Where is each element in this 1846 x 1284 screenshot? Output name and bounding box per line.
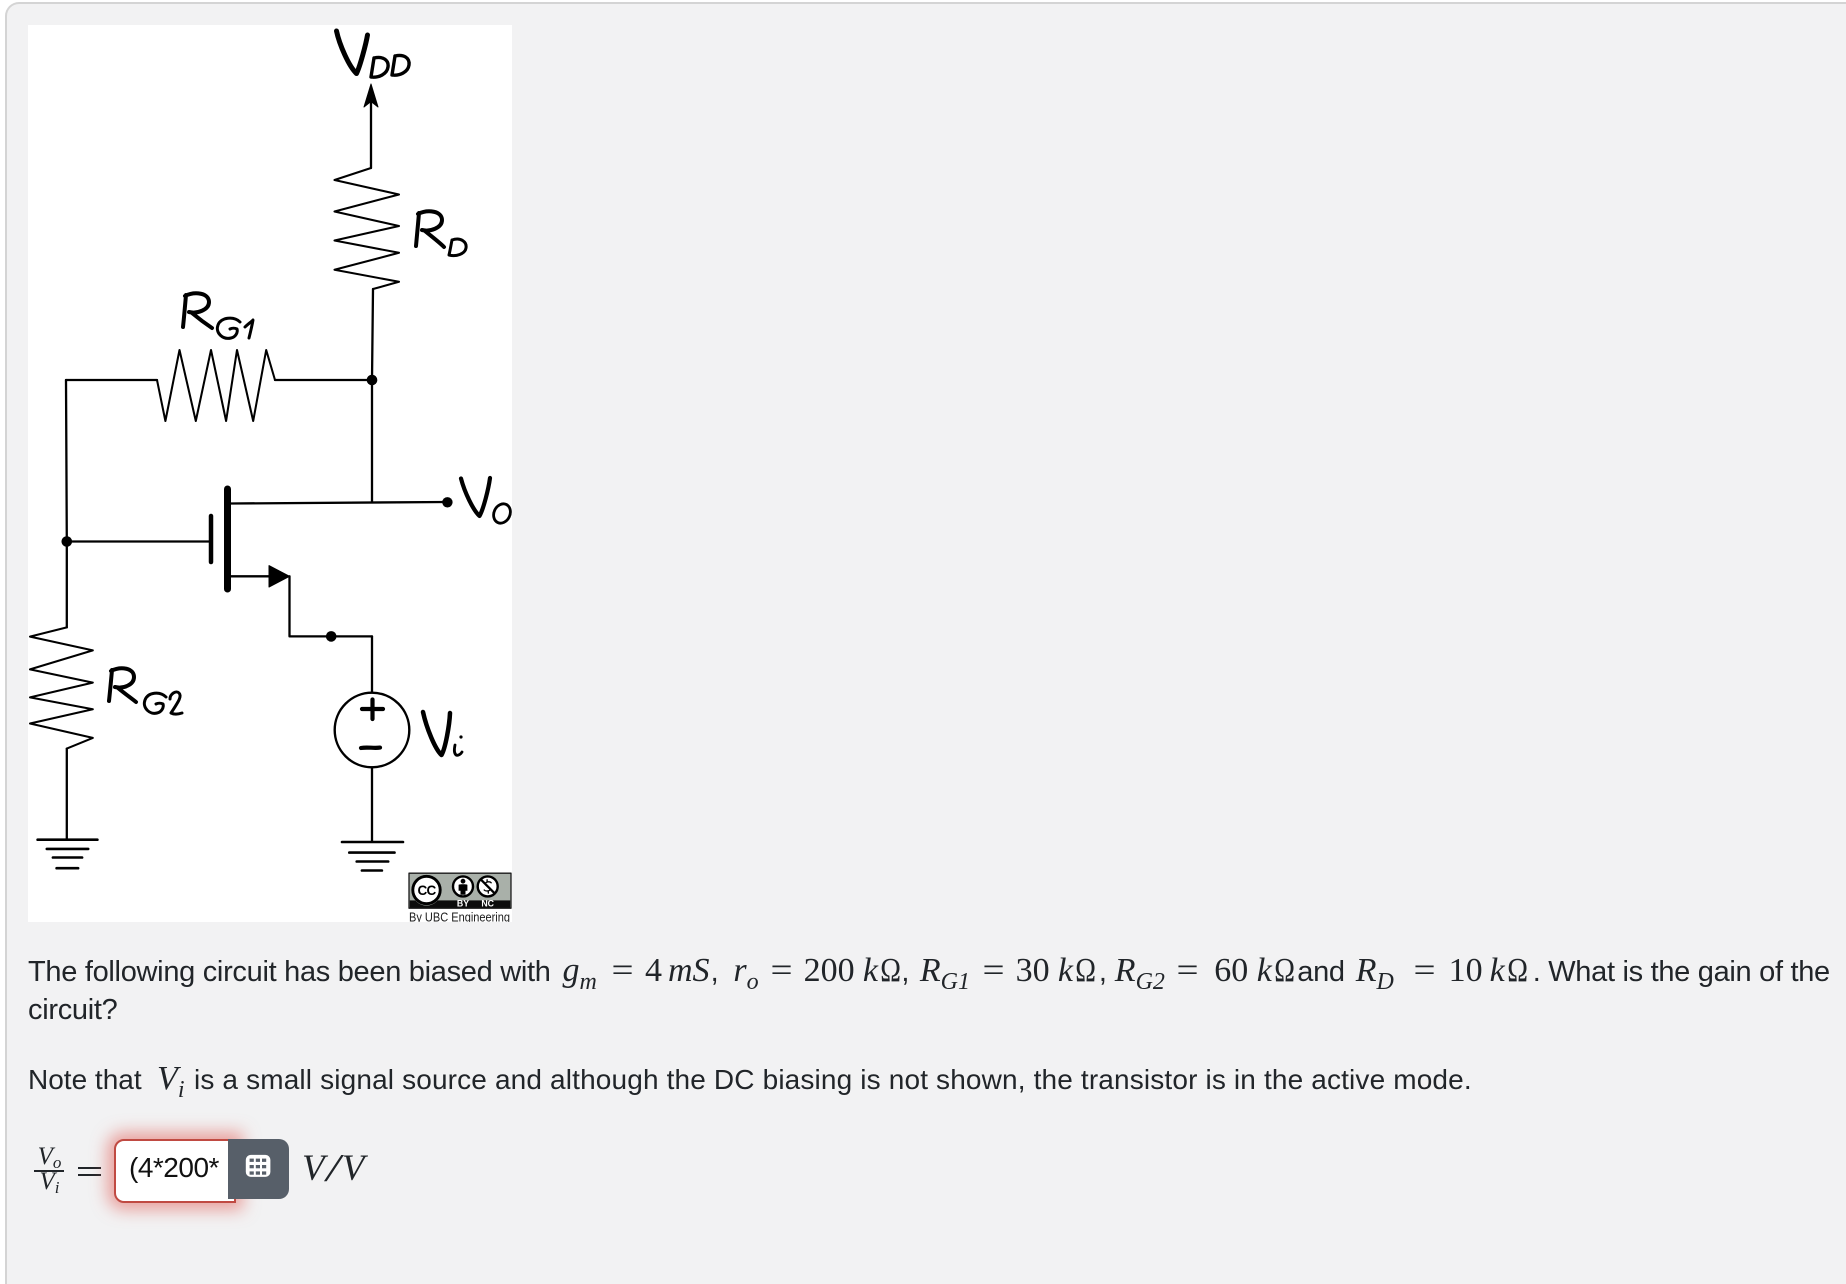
source junction dot bbox=[326, 631, 337, 642]
output terminal dot Vo bbox=[442, 497, 452, 507]
svg-text:By UBC Engineering: By UBC Engineering bbox=[409, 909, 510, 922]
drain wire bbox=[231, 502, 447, 504]
resistor RG1 bbox=[157, 350, 275, 421]
label RG1 bbox=[183, 293, 212, 328]
node dot bbox=[367, 375, 378, 386]
question text bbox=[28, 953, 1830, 1030]
ground right bbox=[342, 842, 403, 871]
label Vi bbox=[423, 712, 450, 755]
source wire bbox=[231, 575, 287, 577]
plus sign bbox=[362, 700, 383, 720]
white circuit area bbox=[28, 25, 512, 922]
resistor RG2 bbox=[30, 627, 93, 748]
CC BY-NC badge bbox=[409, 873, 511, 924]
label RG2 bbox=[109, 668, 136, 702]
transistor channel bar bbox=[224, 489, 231, 589]
source arrowhead bbox=[269, 566, 290, 587]
gate junction dot bbox=[62, 536, 73, 547]
svg-text:NC: NC bbox=[481, 899, 494, 909]
wire Vi to ground bbox=[371, 767, 373, 841]
wire RG1 to node bbox=[275, 379, 372, 381]
equals sign bbox=[78, 1167, 101, 1169]
wire RG2 to ground bbox=[66, 749, 68, 839]
minus sign bbox=[361, 745, 380, 750]
answer row: fraction Vo/Vi bbox=[33, 1144, 66, 1194]
V/V unit bbox=[302, 1150, 365, 1187]
resistor RD bbox=[335, 168, 400, 289]
wire to Vi source bbox=[371, 636, 373, 692]
gate wire bbox=[67, 540, 209, 542]
label VDD bbox=[337, 31, 368, 74]
VDD arrow bbox=[370, 100, 372, 168]
label RD bbox=[416, 211, 444, 247]
input box bbox=[114, 1139, 236, 1203]
ground left bbox=[38, 840, 98, 869]
calculator button bbox=[228, 1139, 289, 1199]
label Vo bbox=[461, 478, 490, 516]
wire RD to node bbox=[372, 289, 373, 380]
wire node down to drain bbox=[371, 380, 373, 502]
left vertical wire bbox=[65, 380, 68, 627]
svg-text:CC: CC bbox=[418, 883, 437, 898]
transistor gate bar bbox=[209, 516, 214, 562]
svg-text:BY: BY bbox=[457, 899, 469, 909]
wire left to RG1 bbox=[66, 379, 157, 381]
source Vi circle bbox=[335, 693, 410, 768]
source down wire bbox=[290, 576, 373, 636]
